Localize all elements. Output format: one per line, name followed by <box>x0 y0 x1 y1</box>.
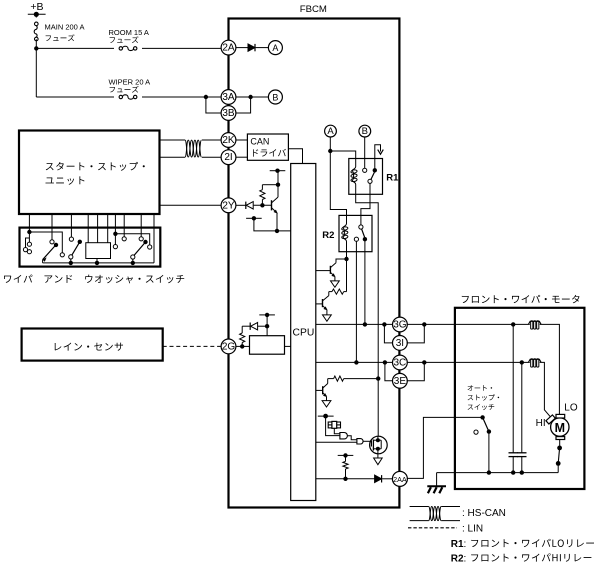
start-stop unit label2 <box>46 176 85 184</box>
bottom bus motor box <box>437 472 559 474</box>
junction R2 coil drive <box>344 257 348 261</box>
relay R1 label <box>386 173 399 184</box>
svg-text:B: B <box>362 126 368 137</box>
wire 2AA to auto stop <box>407 417 483 478</box>
CPU box <box>291 164 316 501</box>
node +B terminal <box>28 12 46 17</box>
wire diode to A <box>256 47 269 49</box>
wire CPU to 3G <box>316 323 392 325</box>
wire R1 NC arrow <box>375 145 381 171</box>
blade R1 <box>371 172 375 179</box>
capacitor C1 <box>509 324 518 472</box>
blade R2 <box>362 229 365 237</box>
motor M1 <box>546 414 569 439</box>
wire to ground <box>436 473 438 487</box>
connector 2AA <box>392 471 407 486</box>
wire A down <box>329 137 331 151</box>
junction cap2 <box>520 360 524 364</box>
ground chassis <box>427 486 446 493</box>
wire MOSFET drain <box>377 379 379 437</box>
inductor L2 <box>528 359 541 367</box>
wire sw9 <box>140 214 142 237</box>
contact R2 NC <box>354 237 358 241</box>
wire sw4 <box>87 214 89 243</box>
svg-text:M: M <box>555 421 565 435</box>
diode D4 <box>375 475 382 482</box>
wire ROOM feed <box>36 47 221 49</box>
fuse WIPER 20A <box>109 77 151 99</box>
wire down to WIPER feed <box>35 48 37 97</box>
wire LIN dashed to 2G <box>163 345 222 347</box>
junction R1 drive <box>376 376 380 380</box>
wire R2 coil bottom <box>346 242 348 260</box>
svg-text:2I: 2I <box>224 152 232 163</box>
wire diode to base <box>254 204 272 206</box>
wire 3G 3I bypass right <box>407 324 425 343</box>
contact R2 common <box>359 225 363 229</box>
wire G1 to G2 <box>348 436 357 440</box>
diode D3 <box>250 323 257 330</box>
motor brush contact <box>556 446 562 473</box>
wire auto stop down <box>488 432 490 473</box>
wire G2 to MOSFET <box>363 440 371 442</box>
wire R1 pivot down <box>361 183 370 225</box>
wire unit to twist top <box>160 139 186 141</box>
wire 2G to junction <box>236 345 250 347</box>
junction bottom1 <box>69 261 73 265</box>
svg-text:2G: 2G <box>222 341 236 352</box>
wire D4 to 2AA <box>382 478 392 480</box>
wire 2I to CAN <box>236 156 248 158</box>
contact blade3 pivot <box>131 255 135 259</box>
twisted pair HS-CAN <box>185 140 202 157</box>
junction bus1 <box>487 470 491 474</box>
transistor Q4 <box>316 379 328 401</box>
wire X1 to gate1 <box>334 428 340 433</box>
svg-text:3A: 3A <box>222 92 235 103</box>
wire B to R1 <box>364 137 366 168</box>
contact rc1 <box>113 245 117 249</box>
gate G2 <box>357 439 363 444</box>
connector 3A <box>221 90 236 105</box>
resistor R4 <box>240 326 251 346</box>
FBCM title <box>300 4 327 15</box>
wire R1 coil bottom <box>356 185 379 379</box>
wire 2K to CAN <box>236 139 248 141</box>
wire 3A 3B bypass left <box>206 97 221 113</box>
svg-text:: HS-CAN: : HS-CAN <box>462 508 506 519</box>
supply tick T2 <box>246 216 262 220</box>
connector 2Y <box>221 198 236 213</box>
bottom bus wire <box>43 262 154 264</box>
front wiper motor box <box>455 308 585 489</box>
switch box label <box>4 275 184 284</box>
svg-text:A: A <box>327 126 334 137</box>
junction R2NC 3C <box>354 360 358 364</box>
node A inner <box>325 125 337 137</box>
legend R2 text <box>471 553 591 561</box>
wire CPU to 3C <box>316 361 392 363</box>
auto stop switch label2 <box>468 394 500 400</box>
wire CPU to 2AA <box>316 478 375 480</box>
relay R2 coil <box>341 224 348 242</box>
rain input block <box>250 336 285 355</box>
relay R2 label <box>322 230 334 241</box>
wire 2A to diode <box>236 47 248 49</box>
wire mist left <box>26 238 30 247</box>
svg-text:3G: 3G <box>393 320 407 331</box>
wire blade2 bottom <box>70 259 72 263</box>
CAN driver label <box>250 137 269 147</box>
contact sw2 <box>50 240 54 244</box>
contact R2 NO <box>363 237 367 241</box>
wire 3C to motor <box>407 361 530 363</box>
wire R2 drive node <box>346 259 348 292</box>
wire R2 NO down <box>364 239 366 324</box>
wire R2 NC down <box>355 241 357 362</box>
wire sw6 <box>107 214 109 243</box>
rain sensor label <box>55 343 123 351</box>
legend R2 prefix <box>451 554 466 565</box>
junction D3 <box>265 324 269 328</box>
legend R1 prefix <box>451 539 466 550</box>
wire 3G 3I bypass left <box>384 324 392 343</box>
relay R1 box <box>349 159 383 195</box>
resistor R5 <box>329 289 347 294</box>
label LO <box>564 403 578 414</box>
label WIPER fuse jp <box>110 86 139 93</box>
junction 3G bypass <box>382 322 386 326</box>
ground arrow Q4 <box>322 401 331 407</box>
gate G1 <box>340 433 348 439</box>
start-stop unit label1 <box>46 162 145 171</box>
wire T1 to collector <box>277 171 279 185</box>
svg-text:WIPER 20 A: WIPER 20 A <box>109 77 151 86</box>
relay R1 coil <box>351 167 358 185</box>
junction bus3 <box>520 470 524 474</box>
wire sw5 <box>97 214 99 243</box>
legend LIN text <box>462 523 483 534</box>
svg-text:3B: 3B <box>222 108 235 119</box>
wire 3A 3B bypass right <box>236 97 251 113</box>
junction main <box>34 46 38 50</box>
rain sensor box <box>22 329 163 361</box>
svg-text::: : <box>464 554 467 565</box>
junction collector Q1 <box>276 183 280 187</box>
wire 3C 3E bypass right <box>407 362 425 380</box>
contact sw8 <box>122 237 126 241</box>
node B top <box>268 90 282 104</box>
connector 2G <box>221 339 236 354</box>
transistor Q1 <box>272 185 279 231</box>
svg-text:FBCM: FBCM <box>300 4 327 15</box>
svg-text:ROOM 15 A: ROOM 15 A <box>109 28 149 37</box>
CPU label <box>293 328 315 339</box>
wire 3G to motor <box>407 323 530 325</box>
contact R1 pivot <box>368 179 372 183</box>
FBCM box <box>229 19 400 508</box>
wire twist to 2I <box>202 156 221 158</box>
supply tick T3 <box>259 313 275 317</box>
legend R1 text <box>471 539 594 547</box>
svg-text:B: B <box>272 93 278 103</box>
wire T4 to gate1 <box>326 416 340 436</box>
wire CPU to G2 <box>316 441 357 443</box>
contact int <box>60 253 64 257</box>
capacitor C2 <box>517 362 526 472</box>
svg-text:A: A <box>272 43 278 53</box>
wire sw7 <box>113 214 117 236</box>
connector 3G <box>393 317 408 332</box>
CAN driver box <box>247 134 288 160</box>
MOSFET Q5 <box>370 436 388 454</box>
wire L2 to HI <box>540 362 551 417</box>
wire int feed <box>29 232 62 253</box>
wire twist to 2K <box>202 139 221 141</box>
wire WIPER feed <box>36 96 221 98</box>
svg-text:2AA: 2AA <box>393 475 407 484</box>
junction cap1 <box>511 322 515 326</box>
contact R1 common <box>363 168 367 172</box>
wire sw8 <box>123 214 125 237</box>
connector 3E <box>393 373 408 388</box>
supply tick T4 <box>318 414 334 419</box>
fuse MAIN 200A <box>34 22 84 41</box>
junction A <box>328 149 332 153</box>
contact mist3 <box>27 250 31 254</box>
contact sw3 <box>69 237 73 241</box>
node +B label <box>30 1 43 13</box>
resistor R3 <box>260 185 265 206</box>
resistor R7 <box>343 455 348 478</box>
node B inner <box>359 125 371 137</box>
svg-text:HI: HI <box>536 418 546 429</box>
wire MAIN fuse to junction <box>35 39 37 48</box>
junction base Q1 <box>260 203 264 207</box>
wire sw10 <box>153 214 155 263</box>
contact rc2 <box>148 245 152 249</box>
motor box title <box>462 295 580 303</box>
svg-text:R2: R2 <box>451 554 464 565</box>
svg-text:R2: R2 <box>322 230 334 241</box>
connector 2K <box>221 133 236 148</box>
label ROOM fuse jp <box>110 36 139 43</box>
junction R2NO 3G <box>363 322 367 326</box>
contact blade2 <box>69 255 73 259</box>
wire 3A to B <box>236 96 269 98</box>
wire +B to MAIN fuse <box>35 14 37 17</box>
wire CAN to CPU <box>288 149 302 164</box>
junction 3C right <box>422 360 426 364</box>
wire R3 top <box>262 184 278 186</box>
supply tick T5 <box>338 453 354 457</box>
junction 3C bypass <box>383 360 387 364</box>
junction 3G right <box>422 322 426 326</box>
node A top <box>268 41 282 55</box>
wire right cluster top <box>115 234 149 245</box>
label MAIN fuse jp <box>46 34 75 41</box>
fuse ROOM 15A <box>109 28 149 51</box>
transistor Q3 <box>316 292 329 315</box>
supply tick T1 <box>270 169 286 173</box>
legend HS-CAN symbol <box>410 507 460 521</box>
junction 3A left <box>204 95 208 99</box>
auto stop switch label1 <box>468 385 493 391</box>
label HI <box>536 418 546 429</box>
resistor R6 <box>328 376 379 381</box>
wire mist jog <box>28 232 30 242</box>
junction bus2 <box>511 470 515 474</box>
svg-text:2Y: 2Y <box>222 200 235 211</box>
switch blade wiper <box>43 243 59 262</box>
svg-text:2A: 2A <box>222 43 235 54</box>
contact mist2 <box>23 248 27 252</box>
start-stop unit box <box>19 131 160 215</box>
wire T3 down <box>266 315 268 336</box>
junction 3A right <box>248 95 252 99</box>
wire 2Y to diode <box>236 204 246 206</box>
wire unit to 2Y <box>160 204 222 206</box>
ground arrow Q3 <box>323 315 332 321</box>
junction 2G <box>240 344 244 348</box>
auto stop switch label3 <box>468 404 495 410</box>
washer unit box <box>86 243 111 259</box>
svg-text:+B: +B <box>30 1 43 13</box>
svg-text:R1: R1 <box>451 539 464 550</box>
wire blade to bottom <box>42 260 44 263</box>
inductor L1 <box>528 321 541 329</box>
diode D1 <box>248 44 255 51</box>
wire unit to twist bottom <box>160 156 186 158</box>
legend HS-CAN text <box>462 508 506 519</box>
connector 2I <box>221 150 236 165</box>
wire sw2 <box>51 214 53 240</box>
svg-text:3I: 3I <box>396 338 404 349</box>
legend LIN line <box>408 527 457 529</box>
wire T2 down <box>254 218 291 231</box>
svg-text:3E: 3E <box>394 376 407 387</box>
connector 2A <box>221 40 236 55</box>
svg-text:CPU: CPU <box>293 328 315 339</box>
arrowhead feed <box>378 150 384 155</box>
ground arrow Q5 <box>374 458 383 465</box>
contact sw9 <box>139 237 143 241</box>
svg-text:: LIN: : LIN <box>462 523 483 534</box>
junction R7 <box>343 477 347 481</box>
wire blade3 bottom <box>131 259 135 265</box>
svg-text:2K: 2K <box>222 135 235 146</box>
wire sw1 <box>27 214 31 234</box>
relay R2 box <box>339 215 372 251</box>
wire block to CPU <box>285 345 291 347</box>
wire 3C 3E bypass left <box>385 362 392 380</box>
connector 3I <box>393 336 408 351</box>
junction emitter Q1 <box>275 229 279 233</box>
contact R1 NC <box>373 168 377 172</box>
svg-text::: : <box>464 539 467 550</box>
wire A to R1 coil <box>330 151 355 167</box>
CAN driver label jp <box>253 149 286 157</box>
wire A to R2 coil <box>330 151 346 224</box>
auto stop switch <box>474 415 491 434</box>
svg-text:3C: 3C <box>394 358 407 369</box>
ground arrow Q2 <box>331 281 340 287</box>
svg-text:CAN: CAN <box>250 137 269 147</box>
svg-text:MAIN 200 A: MAIN 200 A <box>45 22 85 31</box>
wire washer bottom <box>95 259 99 266</box>
crystal X1 <box>328 421 340 428</box>
contact mist1 <box>27 242 31 246</box>
svg-text:R1: R1 <box>386 173 399 184</box>
svg-text:LO: LO <box>564 403 578 414</box>
wire MOSFET source <box>377 454 379 458</box>
wiper washer switch box <box>20 228 161 267</box>
transistor Q2 <box>316 259 347 281</box>
wire motor bottom <box>559 440 561 446</box>
wire rc1 <box>114 234 116 245</box>
switch blade3 <box>134 240 148 256</box>
diode D2 <box>246 202 253 209</box>
wire D3 to node <box>258 325 267 327</box>
connector 3B <box>221 106 236 121</box>
switch blade2 <box>71 240 82 257</box>
connector 3C <box>393 355 408 370</box>
wire L1 to LO <box>540 324 560 414</box>
wire sw3 <box>70 214 72 237</box>
